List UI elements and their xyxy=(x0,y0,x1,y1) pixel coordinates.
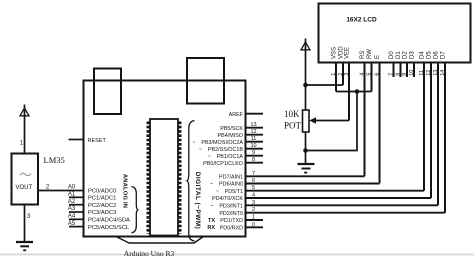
Arduino analog pin A2 stub xyxy=(69,204,84,206)
svg-text:A0: A0 xyxy=(68,185,76,191)
svg-text:1: 1 xyxy=(20,141,24,147)
svg-text:D3: D3 xyxy=(409,51,415,59)
Arduino analog pin A3 stub xyxy=(69,211,84,213)
LCD pin 10 D3 lead xyxy=(413,62,415,77)
ANALOG IN group brace xyxy=(132,187,139,233)
wire VSS to RW ground bus xyxy=(336,91,372,93)
wire Arduino PD5/T1 to LCD xyxy=(246,190,425,192)
svg-text:5: 5 xyxy=(366,73,372,76)
LCD pin 14 D7 lead xyxy=(444,62,446,213)
Arduino analog pin A4 stub xyxy=(69,218,84,220)
svg-text:A5: A5 xyxy=(68,221,76,227)
LCD pin 13 D6 lead xyxy=(437,62,439,205)
LCD pin 5 RW lead xyxy=(371,62,373,92)
LCD pin 4 RS lead xyxy=(364,62,366,176)
16X2 LCD module xyxy=(319,4,471,63)
svg-text:10: 10 xyxy=(409,70,415,76)
svg-text:PB4/MISO: PB4/MISO xyxy=(218,133,243,139)
Arduino USB connector xyxy=(94,69,121,115)
svg-text:PC0/ADC0: PC0/ADC0 xyxy=(88,189,116,195)
ground symbol (pot) xyxy=(298,164,315,173)
LCD pin 7 D0 lead xyxy=(393,62,395,77)
svg-text:3: 3 xyxy=(252,200,255,206)
svg-text:11: 11 xyxy=(419,70,425,76)
svg-text:RESET: RESET xyxy=(88,138,107,144)
svg-text:6: 6 xyxy=(252,178,255,184)
svg-text:7: 7 xyxy=(388,73,394,76)
svg-text:2: 2 xyxy=(252,207,255,213)
svg-text:7: 7 xyxy=(252,171,255,177)
svg-text:~ PD3/INT1: ~ PD3/INT1 xyxy=(210,204,243,210)
wire Arduino PD6/AIN0 to LCD xyxy=(246,183,380,185)
svg-text:D7: D7 xyxy=(440,51,446,59)
svg-text:9: 9 xyxy=(252,150,255,156)
svg-text:1: 1 xyxy=(331,73,337,76)
Arduino pin stub PB1/OC1A xyxy=(246,155,264,157)
+5V power arrow (pot rail) xyxy=(301,39,310,111)
svg-text:ANALOG IN: ANALOG IN xyxy=(121,174,127,208)
LM35 sensor body xyxy=(12,154,39,205)
LCD pin 9 D2 lead xyxy=(406,62,408,77)
svg-text:~ PD6/AIN0: ~ PD6/AIN0 xyxy=(210,182,243,188)
Arduino pin stub PD1/TXD xyxy=(246,219,264,221)
svg-text:1: 1 xyxy=(252,215,255,221)
svg-text:5: 5 xyxy=(252,185,255,191)
svg-text:D6: D6 xyxy=(433,51,439,59)
svg-text:RS: RS xyxy=(360,51,366,59)
svg-text:RW: RW xyxy=(367,49,373,59)
svg-text:10K: 10K xyxy=(284,109,300,119)
LCD pin 11 D4 lead xyxy=(423,62,425,191)
svg-text:A4: A4 xyxy=(68,214,76,220)
svg-text:6: 6 xyxy=(374,73,380,76)
LCD pin 3 VEE lead xyxy=(348,62,350,121)
svg-text:9: 9 xyxy=(402,73,408,76)
svg-text:8: 8 xyxy=(252,157,255,163)
wire Arduino PD7/AIN1 to LCD xyxy=(246,175,365,177)
svg-text:PD0/RXD: PD0/RXD xyxy=(220,226,243,232)
svg-text:0: 0 xyxy=(252,222,255,228)
svg-text:8: 8 xyxy=(395,73,401,76)
wire LM35 VOUT to Arduino A0 xyxy=(38,190,84,192)
svg-text:VOUT: VOUT xyxy=(16,185,33,191)
pot bottom lead to ground xyxy=(305,132,307,164)
svg-text:LM35: LM35 xyxy=(44,155,65,165)
svg-text:D4: D4 xyxy=(419,51,425,59)
LM35 pin 3 lead to ground xyxy=(24,205,26,242)
svg-text:4: 4 xyxy=(359,73,365,76)
svg-text:PC5/ADC5/SCL: PC5/ADC5/SCL xyxy=(88,225,130,231)
Arduino power jack xyxy=(187,58,224,104)
svg-text:PD2/INT0: PD2/INT0 xyxy=(219,211,243,217)
svg-text:11: 11 xyxy=(251,136,257,142)
svg-text:D0: D0 xyxy=(389,51,395,59)
svg-text:E: E xyxy=(375,55,381,59)
DIGITAL group brace xyxy=(187,121,195,242)
wire Arduino PD2/INT0 to LCD xyxy=(246,212,446,214)
Arduino analog pin A5 stub xyxy=(69,226,84,228)
svg-text:PD1/TXD: PD1/TXD xyxy=(220,218,243,224)
wire Arduino PD4/T0/XCK to LCD xyxy=(246,197,432,199)
svg-text:12: 12 xyxy=(426,70,432,76)
svg-text:13: 13 xyxy=(250,122,256,128)
pot wiper arrowhead xyxy=(309,117,316,124)
svg-text:3: 3 xyxy=(27,214,31,220)
Arduino pin stub AREF xyxy=(246,113,264,115)
svg-text:12: 12 xyxy=(250,129,256,135)
LCD pin 6 E lead xyxy=(379,62,381,184)
svg-text:14: 14 xyxy=(440,70,446,76)
Arduino pin stub PB3/MOSI/OC2A xyxy=(246,141,264,143)
svg-text:D5: D5 xyxy=(426,51,432,59)
svg-text:3: 3 xyxy=(344,73,350,76)
svg-text:PB0/ICP1/CLKO: PB0/ICP1/CLKO xyxy=(203,161,243,167)
svg-text:TX: TX xyxy=(208,218,215,224)
svg-text:PC4/ADC4/SDA: PC4/ADC4/SDA xyxy=(88,218,130,224)
svg-text:~ PB1/OC1A: ~ PB1/OC1A xyxy=(207,154,243,160)
svg-text:PD7/AIN1: PD7/AIN1 xyxy=(219,175,243,181)
Arduino pin stub PB2/SS/OC1B xyxy=(246,148,264,150)
ATmega328 right pin bumps xyxy=(178,122,181,235)
svg-text:13: 13 xyxy=(433,70,439,76)
pot wiper wire to VEE xyxy=(311,120,349,122)
svg-text:~ PB2/SS/OC1B: ~ PB2/SS/OC1B xyxy=(199,147,244,153)
svg-text:POT: POT xyxy=(284,121,302,131)
svg-text:A2: A2 xyxy=(68,199,76,205)
svg-text:Arduino Uno R3: Arduino Uno R3 xyxy=(124,249,175,258)
svg-text:PD4/T0/XCK: PD4/T0/XCK xyxy=(212,196,243,202)
ground symbol (LM35) xyxy=(16,242,33,250)
Arduino pin stub PB5/SCK xyxy=(246,127,264,129)
+5V power arrow (LM35) xyxy=(20,105,29,154)
svg-text:D2: D2 xyxy=(402,51,408,59)
svg-text:10: 10 xyxy=(250,143,256,149)
svg-text:PB5/SCK: PB5/SCK xyxy=(220,126,243,132)
Arduino RESET pin stub xyxy=(69,139,84,141)
wire Arduino PD3/INT1 to LCD xyxy=(246,204,439,206)
LM35 internal squiggle xyxy=(20,173,31,176)
LCD pin 8 D1 lead xyxy=(400,62,402,77)
svg-text:PC3/ADC3: PC3/ADC3 xyxy=(88,210,116,216)
svg-text:16X2 LCD: 16X2 LCD xyxy=(346,17,377,24)
junction dot ground bus xyxy=(355,89,360,94)
ATmega328 DIP chip body xyxy=(150,119,178,236)
Arduino bottom notch xyxy=(116,237,204,244)
svg-text:~ PB3/MOSI/OC2A: ~ PB3/MOSI/OC2A xyxy=(192,140,243,146)
Arduino pin stub PD0/RXD xyxy=(246,226,264,228)
potentiometer RV1 10K body xyxy=(303,110,310,132)
svg-text:A3: A3 xyxy=(68,206,76,212)
svg-text:PC2/ADC2: PC2/ADC2 xyxy=(88,203,116,209)
wire ground bus drop xyxy=(306,92,358,151)
svg-text:AREF: AREF xyxy=(229,112,244,118)
svg-text:PC1/ADC1: PC1/ADC1 xyxy=(88,196,116,202)
Arduino pin stub PB0/ICP1/CLKO xyxy=(246,162,264,164)
Arduino analog pin A1 stub xyxy=(69,196,84,198)
svg-text:4: 4 xyxy=(252,193,255,199)
svg-text:RX: RX xyxy=(207,225,215,231)
svg-text:A1: A1 xyxy=(68,192,76,198)
LCD pin 1 VSS lead xyxy=(335,62,337,92)
LCD pin 12 D5 lead xyxy=(430,62,432,198)
ATmega328 left pin bumps xyxy=(146,122,149,235)
junction dot VDD rail xyxy=(303,83,308,88)
svg-text:VSS: VSS xyxy=(331,47,337,59)
junction dot pot ground xyxy=(303,148,308,153)
Arduino pin stub PB4/MISO xyxy=(246,134,264,136)
wire VDD to +5V rail xyxy=(306,84,344,86)
LCD pin 2 VDD lead xyxy=(342,62,344,85)
svg-text:D1: D1 xyxy=(396,51,402,59)
svg-text:VEE: VEE xyxy=(344,47,350,59)
svg-text:DIGITAL (~PWM): DIGITAL (~PWM) xyxy=(194,172,201,230)
svg-text:~ PD5/T1: ~ PD5/T1 xyxy=(216,189,243,195)
bottom window divider line xyxy=(0,254,474,256)
Arduino Uno R3 board outline U1 xyxy=(84,81,246,237)
